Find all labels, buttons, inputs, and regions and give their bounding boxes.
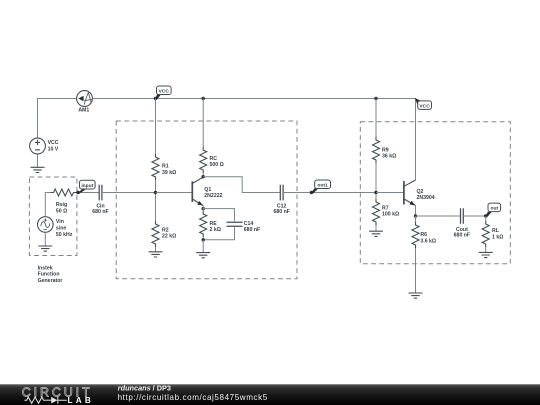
svg-text:36 kΩ: 36 kΩ bbox=[382, 154, 396, 160]
node rail-RC bbox=[202, 97, 205, 100]
wire rail to RC bbox=[202, 99, 204, 148]
node RE bottom bbox=[202, 238, 205, 241]
svg-text:R2: R2 bbox=[162, 227, 169, 233]
ground below Vin bbox=[38, 246, 52, 251]
wire R9 to R7 bbox=[375, 163, 377, 199]
capacitor C12 bbox=[273, 185, 289, 215]
resistor RE bbox=[200, 211, 221, 237]
svg-text:10 V: 10 V bbox=[48, 146, 59, 152]
source Vin sine bbox=[38, 217, 73, 238]
svg-text:rduncans / DP3: rduncans / DP3 bbox=[118, 383, 171, 392]
wire R7 to ground bbox=[375, 225, 377, 231]
svg-text:500 Ω: 500 Ω bbox=[210, 162, 224, 168]
node base divider bbox=[154, 191, 157, 194]
svg-text:1 kΩ: 1 kΩ bbox=[492, 234, 503, 240]
wire C14 branch top bbox=[203, 209, 234, 222]
wire RE to bottom node bbox=[202, 237, 204, 240]
node out bbox=[484, 214, 487, 217]
wire Q2 collector up bbox=[415, 179, 417, 181]
enclosure second stage bbox=[360, 122, 510, 264]
wire Vin to Rsig bbox=[45, 193, 50, 217]
resistor R9 bbox=[373, 137, 397, 163]
logo wire bbox=[46, 399, 51, 401]
enclosure first stage bbox=[116, 121, 297, 279]
svg-text:22 kΩ: 22 kΩ bbox=[162, 234, 176, 240]
svg-text:sine: sine bbox=[56, 226, 66, 232]
svg-text:Generator: Generator bbox=[38, 278, 63, 284]
svg-text:Instek: Instek bbox=[38, 266, 53, 272]
svg-text:680 nF: 680 nF bbox=[92, 209, 108, 215]
svg-text:Q2: Q2 bbox=[417, 189, 424, 195]
resistor Rsig bbox=[51, 189, 77, 215]
ammeter AM1 bbox=[77, 91, 93, 114]
footer bar bbox=[0, 384, 540, 405]
wire emitter node to Cout bbox=[416, 215, 461, 217]
wire R1 to R2 bbox=[155, 180, 157, 221]
capacitor Cin bbox=[92, 185, 108, 215]
svg-text:Q1: Q1 bbox=[204, 187, 211, 193]
wire base node to Q2 bbox=[376, 192, 404, 194]
svg-text:LAB: LAB bbox=[68, 396, 94, 405]
node Q1 emitter bbox=[202, 207, 205, 210]
resistor RC bbox=[200, 147, 224, 173]
svg-text:VCC: VCC bbox=[419, 103, 430, 109]
ground below R7 bbox=[369, 231, 383, 236]
wire RC to collector bbox=[202, 173, 204, 177]
svg-text:50 kHz: 50 kHz bbox=[56, 232, 73, 238]
wire Cout to out node bbox=[463, 215, 485, 217]
node Q2 emitter bbox=[414, 214, 417, 217]
svg-text:50 Ω: 50 Ω bbox=[56, 209, 67, 215]
wire rail to R1 bbox=[155, 99, 157, 155]
enclosure Instek Function Generator bbox=[29, 177, 77, 256]
capacitor Cout bbox=[454, 208, 470, 238]
ground below R6 bbox=[409, 293, 423, 298]
svg-text:100 kΩ: 100 kΩ bbox=[382, 212, 399, 218]
wire collector to C12 bbox=[203, 177, 280, 193]
svg-text:VCC: VCC bbox=[159, 89, 170, 95]
svg-text:RE: RE bbox=[210, 221, 218, 227]
ground below RL bbox=[479, 252, 493, 257]
svg-text:3.6 kΩ: 3.6 kΩ bbox=[420, 238, 436, 244]
node out1 bbox=[310, 191, 313, 194]
node input bbox=[76, 191, 79, 194]
svg-text:C14: C14 bbox=[244, 221, 254, 227]
resistor R1 bbox=[152, 154, 176, 180]
wire rail to R9 bbox=[375, 99, 377, 138]
svg-text:R9: R9 bbox=[382, 147, 389, 153]
flag out1 bbox=[311, 180, 331, 193]
wire R2 to ground bbox=[155, 247, 157, 252]
flag VCC right bbox=[415, 98, 432, 109]
svg-text:Vin: Vin bbox=[56, 219, 64, 225]
resistor R2 bbox=[152, 221, 176, 247]
node rail-R9 bbox=[374, 97, 377, 100]
label Instek Function Generator bbox=[38, 266, 63, 284]
logo diode bbox=[51, 397, 67, 404]
svg-text:R6: R6 bbox=[420, 232, 427, 238]
node Q1 collector bbox=[202, 175, 205, 178]
svg-text:http://circuitlab.com/caj58475: http://circuitlab.com/caj58475wmck5 bbox=[118, 393, 268, 402]
wire Q2 emitter to node bbox=[415, 206, 417, 217]
wire emitter to RE bbox=[202, 206, 204, 211]
logo resistor zigzag bbox=[24, 397, 45, 403]
svg-text:R7: R7 bbox=[382, 205, 389, 211]
wire out node to RL bbox=[485, 216, 487, 252]
wire RE node to ground bbox=[202, 240, 204, 253]
resistor R6 bbox=[412, 222, 436, 248]
svg-text:RL: RL bbox=[492, 228, 500, 234]
wire Cin to base node bbox=[102, 192, 156, 194]
resistor R7 bbox=[373, 199, 400, 225]
node Q2 base divider bbox=[374, 191, 377, 194]
flag input bbox=[77, 180, 95, 193]
svg-text:2N2222: 2N2222 bbox=[204, 193, 222, 199]
svg-text:R1: R1 bbox=[162, 164, 169, 170]
transistor Q1 bbox=[192, 177, 222, 206]
svg-text:Function: Function bbox=[38, 272, 60, 278]
wire R6 to ground bbox=[415, 216, 417, 293]
svg-text:AM1: AM1 bbox=[78, 108, 89, 114]
resistor RL bbox=[482, 221, 503, 247]
node rail-R1 bbox=[154, 97, 157, 100]
svg-text:680 nF: 680 nF bbox=[273, 209, 289, 215]
wire top VCC rail bbox=[92, 99, 415, 181]
svg-text:2 kΩ: 2 kΩ bbox=[210, 227, 221, 233]
svg-text:680 nF: 680 nF bbox=[454, 233, 470, 239]
svg-text:RC: RC bbox=[210, 156, 218, 162]
transistor Q2 bbox=[404, 180, 435, 205]
capacitor C14 bbox=[227, 221, 261, 233]
wire VCC source to ground bbox=[37, 154, 39, 167]
wire Rsig to Cin bbox=[77, 192, 100, 194]
wire C14 branch bottom bbox=[203, 227, 234, 240]
ground below R2 bbox=[149, 252, 163, 257]
svg-text:Rsig: Rsig bbox=[56, 202, 67, 208]
flag out bbox=[485, 203, 501, 217]
wire base node to Q1 bbox=[156, 192, 193, 194]
svg-text:VCC: VCC bbox=[48, 140, 59, 146]
svg-text:out1: out1 bbox=[317, 182, 328, 188]
flag VCC left bbox=[155, 86, 171, 99]
svg-text:input: input bbox=[81, 183, 93, 189]
ground below VCC source bbox=[31, 167, 45, 172]
svg-text:out: out bbox=[490, 206, 498, 212]
svg-text:2N3904: 2N3904 bbox=[417, 195, 435, 201]
wire VCC source to ammeter bbox=[38, 99, 77, 139]
wire C12 to second stage bbox=[283, 192, 376, 194]
svg-text:39 kΩ: 39 kΩ bbox=[162, 170, 176, 176]
voltage source VCC bbox=[30, 138, 59, 154]
svg-text:680 nF: 680 nF bbox=[244, 227, 260, 233]
ground below RE bbox=[196, 253, 210, 258]
wire Vin to ground bbox=[44, 232, 46, 246]
